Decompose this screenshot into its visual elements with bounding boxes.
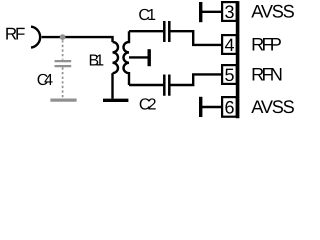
svg-text:6: 6: [224, 98, 234, 118]
wire C1 to pin 4: [171, 31, 222, 45]
wire dashed C4 to ground: [62, 67, 64, 98]
balun B1 primary winding: [113, 42, 119, 73]
svg-text:C1: C1: [138, 7, 156, 24]
svg-text:4: 4: [224, 35, 234, 55]
wire secondary top to C1: [129, 30, 163, 32]
wire C2 to pin 5: [171, 74, 222, 85]
pin 6 box: [222, 97, 237, 117]
svg-text:B1: B1: [89, 52, 105, 69]
svg-text:C4: C4: [37, 72, 53, 89]
pin 3 box: [222, 2, 237, 21]
IC edge line: [236, 1, 240, 118]
pin 3 terminal bar: [199, 2, 202, 22]
node junction dot (optional C4): [60, 34, 66, 40]
svg-text:RF: RF: [5, 25, 26, 44]
ground (balun primary): [103, 99, 128, 102]
capacitor C1 plates: [164, 21, 169, 42]
RF connector J1 (arc): [31, 27, 40, 48]
pin 6 terminal bar: [199, 97, 202, 117]
svg-text:3: 3: [224, 2, 234, 22]
wire dashed junction to C4: [62, 40, 64, 59]
balun B1 secondary winding: [123, 31, 129, 85]
capacitor C4 plates: [55, 61, 72, 66]
ground (gray, for C4): [50, 98, 76, 101]
pin 4 box: [222, 35, 237, 54]
capacitor C2 plates: [164, 75, 169, 96]
svg-text:AVSS: AVSS: [251, 97, 294, 117]
center tap terminal bar: [147, 49, 150, 66]
wire pin 3: [202, 11, 222, 13]
wire secondary center tap: [129, 56, 148, 58]
svg-text:C2: C2: [139, 97, 157, 114]
svg-text:5: 5: [224, 65, 234, 85]
wire secondary bottom to C2: [129, 84, 163, 86]
pin 5 box: [222, 65, 237, 84]
svg-text:AVSS: AVSS: [251, 1, 294, 21]
wire RF input to balun primary: [42, 37, 113, 42]
svg-text:RFP: RFP: [251, 34, 282, 54]
svg-text:RFN: RFN: [251, 64, 283, 84]
wire primary to ground: [111, 73, 113, 99]
wire pin 6: [202, 106, 222, 108]
